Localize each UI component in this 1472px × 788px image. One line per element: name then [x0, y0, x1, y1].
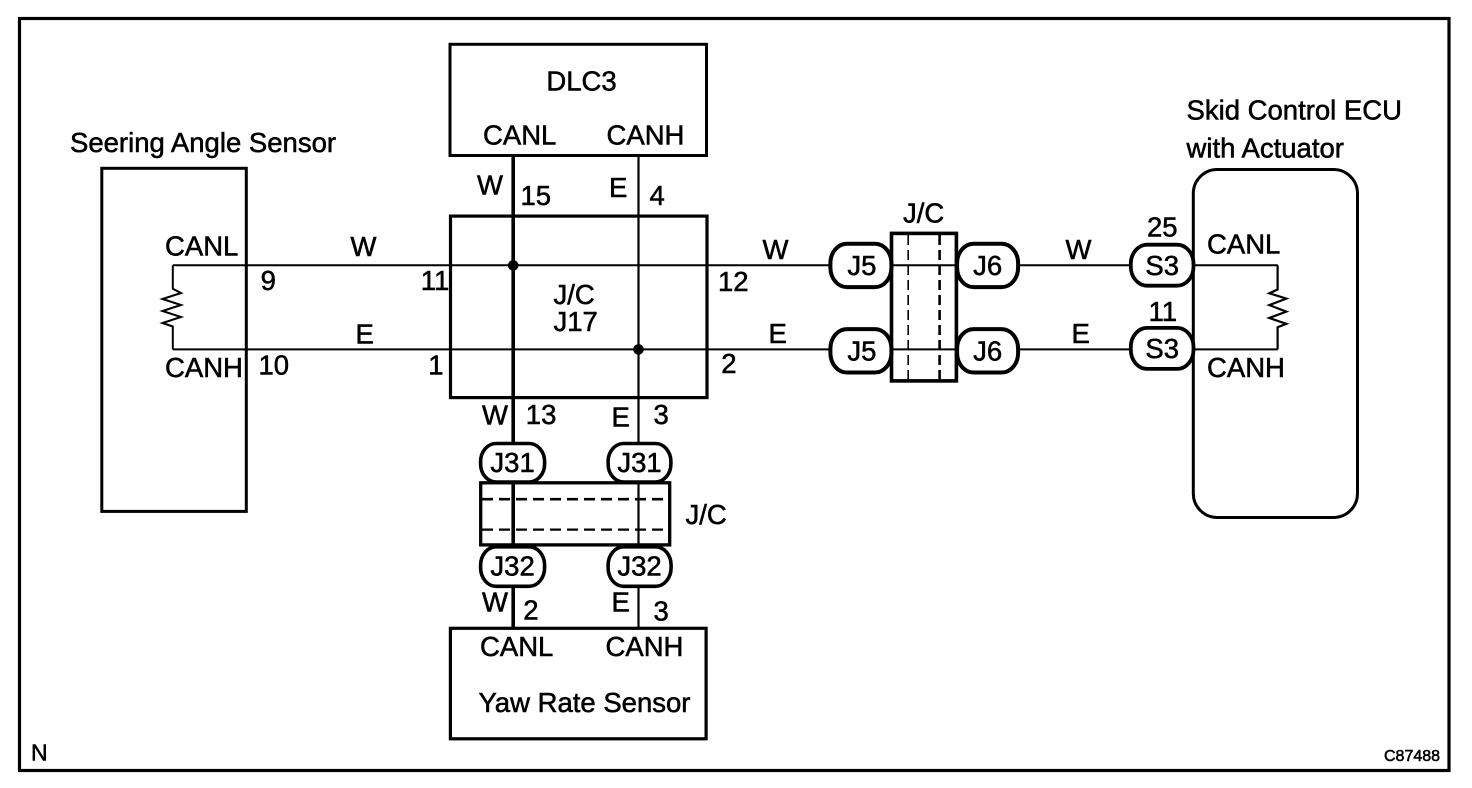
svg-text:W: W	[477, 170, 503, 201]
svg-text:W: W	[482, 587, 508, 618]
svg-text:CANH: CANH	[607, 120, 685, 151]
svg-text:Yaw Rate Sensor: Yaw Rate Sensor	[479, 687, 691, 718]
svg-text:E: E	[612, 587, 630, 618]
svg-text:CANH: CANH	[606, 631, 684, 662]
svg-text:J/C: J/C	[686, 499, 727, 530]
svg-text:J31: J31	[490, 447, 534, 478]
junction dot on W wire	[508, 260, 519, 271]
dashed line 2 in right J/C	[938, 235, 941, 380]
svg-text:11: 11	[1149, 296, 1178, 327]
junction connector J17 box	[451, 216, 708, 398]
connector oval J5 top	[830, 244, 891, 287]
svg-text:E: E	[769, 318, 787, 349]
yaw rate sensor box	[450, 628, 706, 739]
svg-text:CANL: CANL	[483, 120, 556, 151]
connector oval J6 top	[957, 244, 1018, 287]
connector oval S3 top	[1131, 245, 1194, 286]
svg-text:J5: J5	[847, 336, 876, 367]
dashed line 2 in bottom J/C	[482, 528, 668, 530]
wire CANH horizontal (E)	[173, 348, 1278, 350]
connector oval J5 bottom	[830, 329, 891, 372]
DLC3 box	[450, 44, 707, 155]
svg-text:with Actuator: with Actuator	[1186, 133, 1344, 164]
connector oval J32 left	[481, 547, 545, 587]
svg-text:C87488: C87488	[1384, 748, 1440, 765]
connector oval J6 bottom	[957, 329, 1018, 372]
skid control ECU box	[1193, 170, 1357, 518]
svg-text:9: 9	[261, 265, 276, 296]
svg-text:4: 4	[650, 180, 665, 211]
svg-text:S3: S3	[1145, 333, 1179, 364]
svg-text:3: 3	[654, 596, 669, 627]
svg-text:25: 25	[1147, 212, 1178, 243]
svg-text:DLC3: DLC3	[546, 66, 616, 97]
connector oval J32 right	[608, 547, 671, 587]
svg-text:J17: J17	[554, 306, 598, 337]
wire W vertical	[511, 156, 515, 629]
svg-text:Skid Control ECU: Skid Control ECU	[1187, 95, 1403, 126]
svg-text:2: 2	[721, 348, 736, 379]
connector oval J31 left	[481, 444, 545, 483]
svg-text:3: 3	[654, 399, 669, 430]
svg-text:10: 10	[259, 350, 290, 381]
svg-text:W: W	[351, 231, 377, 262]
junction connector box right (vertical)	[892, 233, 957, 381]
junction connector box bottom (horizontal)	[481, 483, 670, 545]
svg-text:CANL: CANL	[1207, 229, 1280, 260]
wire CANL horizontal (W)	[173, 264, 1278, 266]
resistor in skid control ECU	[1269, 265, 1286, 349]
svg-text:CANL: CANL	[165, 231, 238, 262]
svg-text:1: 1	[428, 350, 443, 381]
svg-text:J32: J32	[617, 551, 661, 582]
svg-text:CANH: CANH	[1207, 352, 1285, 383]
dashed line 1 in bottom J/C	[482, 498, 668, 501]
dashed line 1 in right J/C	[907, 235, 909, 380]
svg-text:W: W	[1066, 234, 1092, 265]
svg-text:E: E	[609, 172, 627, 203]
svg-text:CANH: CANH	[165, 352, 243, 383]
svg-text:J31: J31	[617, 447, 661, 478]
svg-text:12: 12	[718, 266, 749, 297]
svg-text:E: E	[356, 319, 374, 350]
wire E vertical	[637, 156, 639, 629]
svg-text:J5: J5	[847, 250, 876, 281]
connector oval J31 right	[608, 444, 671, 483]
svg-text:J/C: J/C	[903, 198, 944, 229]
svg-text:Seering Angle Sensor: Seering Angle Sensor	[70, 127, 336, 158]
svg-text:W: W	[482, 400, 508, 431]
svg-text:E: E	[612, 402, 630, 433]
resistor in steering angle sensor	[163, 265, 182, 349]
svg-text:2: 2	[523, 595, 538, 626]
svg-text:CANL: CANL	[480, 631, 553, 662]
svg-text:11: 11	[421, 265, 450, 296]
junction dot on E wire	[633, 344, 644, 355]
connector oval S3 bottom	[1131, 328, 1194, 369]
svg-text:15: 15	[521, 180, 552, 211]
svg-text:J6: J6	[973, 250, 1002, 281]
svg-text:W: W	[763, 234, 789, 265]
svg-text:13: 13	[526, 399, 557, 430]
svg-text:J32: J32	[490, 551, 534, 582]
svg-text:J6: J6	[973, 336, 1002, 367]
svg-text:N: N	[31, 740, 48, 766]
steering angle sensor box	[102, 168, 247, 511]
svg-text:S3: S3	[1145, 250, 1179, 281]
svg-text:E: E	[1072, 318, 1090, 349]
